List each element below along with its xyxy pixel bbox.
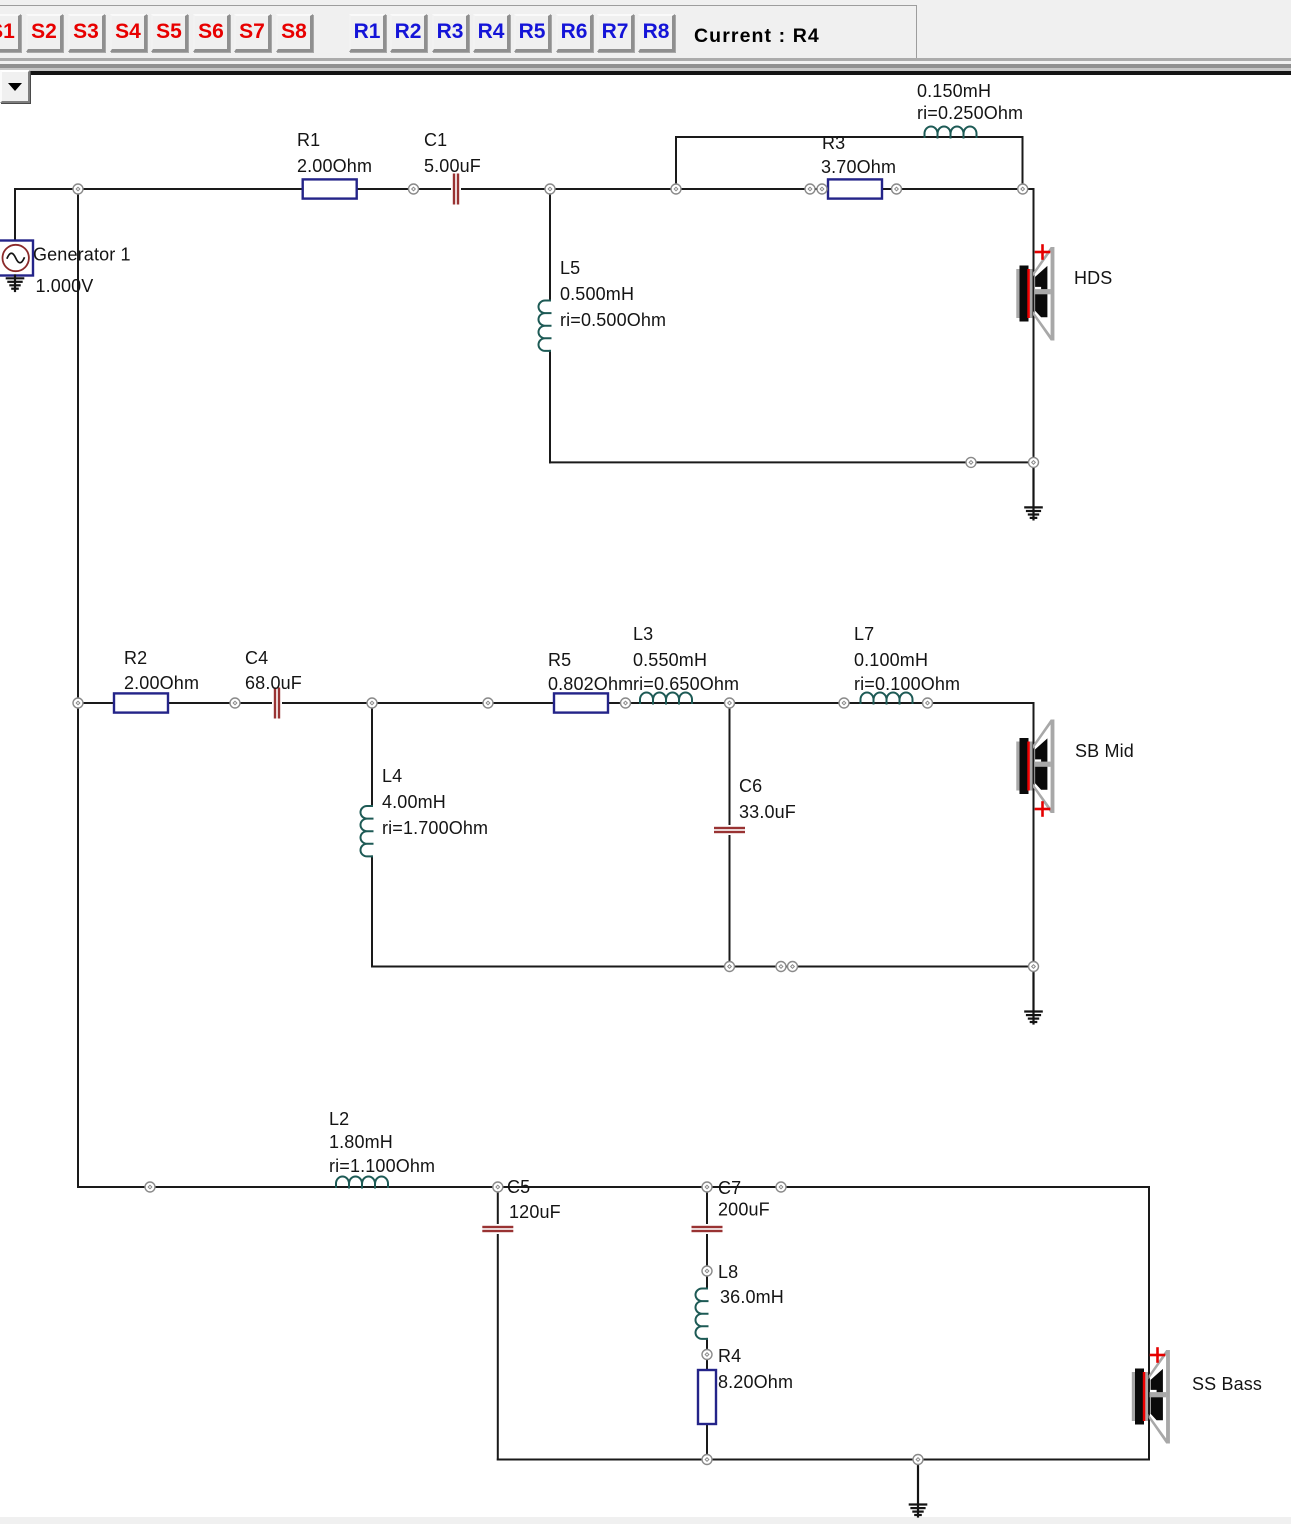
node before R3 a xyxy=(805,184,815,194)
generator G1 symbol xyxy=(0,241,33,276)
node section3 bottom C7 xyxy=(702,1455,712,1465)
svg-text:SB Mid: SB Mid xyxy=(1075,741,1134,761)
svg-text:ri=0.650Ohm: ri=0.650Ohm xyxy=(633,674,739,694)
wire C6 branch vertical xyxy=(729,703,731,967)
inductor L5 coil xyxy=(539,301,551,351)
svg-text:68.0uF: 68.0uF xyxy=(245,673,302,693)
node section2 bottom C6 xyxy=(725,962,735,972)
svg-text:L2: L2 xyxy=(329,1109,349,1129)
svg-text:ri=0.100Ohm: ri=0.100Ohm xyxy=(854,674,960,694)
inductor L2 coil xyxy=(336,1177,388,1188)
node section3 first xyxy=(145,1182,155,1192)
svg-text:0.150mH: 0.150mH xyxy=(917,81,991,101)
speaker HDS xyxy=(1016,247,1054,341)
wire C5 branch vertical xyxy=(497,1187,499,1460)
svg-text:1.000V: 1.000V xyxy=(36,276,94,296)
svg-text:C4: C4 xyxy=(245,648,268,668)
node C6 junction xyxy=(725,698,735,708)
inductor L7 coil xyxy=(861,693,913,704)
wire L5 branch upper xyxy=(549,189,551,301)
node after C1 xyxy=(545,184,555,194)
node section3 main b xyxy=(776,1182,786,1192)
wire SB Mid speaker vertical xyxy=(1033,703,1035,1011)
node section2 bottom a xyxy=(776,962,786,972)
speaker SB Mid xyxy=(1016,720,1054,814)
capacitor C1 xyxy=(451,173,461,206)
svg-text:33.0uF: 33.0uF xyxy=(739,802,796,822)
label SB Mid plus xyxy=(1036,803,1049,816)
svg-text:1.80mH: 1.80mH xyxy=(329,1132,393,1152)
svg-text:4.00mH: 4.00mH xyxy=(382,792,446,812)
svg-text:0.100mH: 0.100mH xyxy=(854,650,928,670)
node section1 ground xyxy=(1029,457,1039,467)
node section2 bottom b xyxy=(788,962,798,972)
ground section2 xyxy=(1025,967,1041,1024)
svg-text:C6: C6 xyxy=(739,776,762,796)
svg-text:ri=1.700Ohm: ri=1.700Ohm xyxy=(382,818,488,838)
node after R1 xyxy=(409,184,419,194)
svg-text:0.550mH: 0.550mH xyxy=(633,650,707,670)
wire R3-branch top horizontal xyxy=(676,136,1023,138)
wire HDS speaker vertical xyxy=(1033,189,1035,462)
svg-text:L8: L8 xyxy=(718,1262,738,1282)
wire L5 branch lower xyxy=(549,351,551,463)
capacitor C4 xyxy=(272,687,282,720)
node section2 ground xyxy=(1029,962,1039,972)
wire section1 bottom horizontal xyxy=(550,461,1034,463)
inductor L3 coil xyxy=(640,693,692,704)
node R3-branch right xyxy=(1018,184,1028,194)
resistor R1 xyxy=(303,179,357,198)
svg-text:L3: L3 xyxy=(633,624,653,644)
wire section1 main horizontal xyxy=(15,188,1034,190)
svg-text:L4: L4 xyxy=(382,766,402,786)
svg-text:R3: R3 xyxy=(822,133,845,153)
wire R3-branch right vertical xyxy=(1022,137,1024,189)
ground section3 xyxy=(910,1460,926,1517)
svg-text:R4: R4 xyxy=(718,1346,741,1366)
svg-text:120uF: 120uF xyxy=(509,1202,561,1222)
node section2 bus junction xyxy=(73,698,83,708)
node after R5 xyxy=(621,698,631,708)
ground section1 xyxy=(1025,462,1041,519)
resistor R2 xyxy=(114,693,168,712)
label HDS plus xyxy=(1036,246,1049,259)
node L4 junction xyxy=(367,698,377,708)
wire L4 branch lower xyxy=(371,856,373,966)
svg-text:ri=1.100Ohm: ri=1.100Ohm xyxy=(329,1156,435,1176)
capacitor C7 xyxy=(691,1224,724,1234)
svg-text:0.500mH: 0.500mH xyxy=(560,284,634,304)
wire SS Bass speaker vertical xyxy=(1148,1187,1150,1460)
node before R5 xyxy=(483,698,493,708)
resistor R3 xyxy=(828,179,882,198)
inductor L8 coil xyxy=(696,1289,708,1339)
ground generator xyxy=(7,276,23,292)
wire C7 branch upper xyxy=(706,1187,708,1289)
node R3-branch left xyxy=(671,184,681,194)
svg-text:C5: C5 xyxy=(507,1177,530,1197)
node R4 top xyxy=(702,1350,712,1360)
wire section2 bottom horizontal xyxy=(372,966,1034,968)
wire L4 branch upper xyxy=(371,703,373,806)
svg-text:0.802Ohm: 0.802Ohm xyxy=(548,674,633,694)
svg-text:36.0mH: 36.0mH xyxy=(720,1287,784,1307)
wire C7 branch lower xyxy=(706,1339,708,1460)
svg-text:5.00uF: 5.00uF xyxy=(424,156,481,176)
node C7 junction xyxy=(702,1182,712,1192)
svg-text:L7: L7 xyxy=(854,624,874,644)
node before L7 xyxy=(839,698,849,708)
resistor R4 xyxy=(698,1370,716,1424)
svg-text:C7: C7 xyxy=(718,1178,741,1198)
wire generator feed vertical xyxy=(14,189,16,240)
wire R3-branch left vertical xyxy=(675,137,677,189)
svg-text:R1: R1 xyxy=(297,130,320,150)
wire section3 main horizontal xyxy=(78,1186,1149,1188)
node C5 junction xyxy=(493,1182,503,1192)
svg-text:ri=0.250Ohm: ri=0.250Ohm xyxy=(917,103,1023,123)
node section3 ground xyxy=(913,1455,923,1465)
svg-text:2.00Ohm: 2.00Ohm xyxy=(297,156,372,176)
svg-text:R5: R5 xyxy=(548,650,571,670)
svg-text:Generator 1: Generator 1 xyxy=(33,245,131,265)
wire section2 main horizontal xyxy=(78,702,1034,704)
node section1 bottom xyxy=(966,457,976,467)
inductor L4 coil xyxy=(361,806,373,856)
node section1 bus junction xyxy=(73,184,83,194)
node before R3 b xyxy=(817,184,827,194)
capacitor C5 xyxy=(481,1224,514,1234)
capacitor C6 xyxy=(713,825,746,835)
svg-text:R2: R2 xyxy=(124,648,147,668)
speaker SS Bass xyxy=(1132,1350,1170,1444)
inductor L1 coil (0.150mH branch) xyxy=(925,127,977,138)
svg-text:ri=0.500Ohm: ri=0.500Ohm xyxy=(560,310,666,330)
node L8 top xyxy=(702,1266,712,1276)
svg-text:SS Bass: SS Bass xyxy=(1192,1374,1262,1394)
wire section3 bottom horizontal xyxy=(498,1459,1149,1461)
svg-text:8.20Ohm: 8.20Ohm xyxy=(718,1372,793,1392)
wire main bus vertical xyxy=(77,189,79,1187)
svg-text:HDS: HDS xyxy=(1074,268,1112,288)
node after R2 xyxy=(230,698,240,708)
svg-text:3.70Ohm: 3.70Ohm xyxy=(821,157,896,177)
svg-text:2.00Ohm: 2.00Ohm xyxy=(124,673,199,693)
label SS Bass plus xyxy=(1151,1349,1164,1362)
svg-text:L5: L5 xyxy=(560,258,580,278)
svg-text:200uF: 200uF xyxy=(718,1200,770,1220)
resistor R5 xyxy=(554,693,608,712)
node after R3 xyxy=(892,184,902,194)
svg-text:C1: C1 xyxy=(424,130,447,150)
node after L7 xyxy=(923,698,933,708)
